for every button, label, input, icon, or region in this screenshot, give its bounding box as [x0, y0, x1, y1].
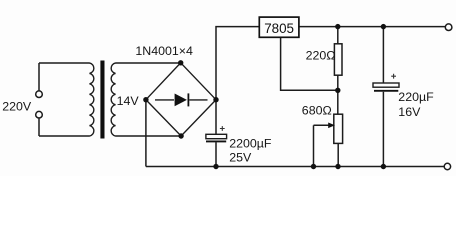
svg-text:680Ω: 680Ω [302, 104, 332, 118]
svg-text:1N4001×4: 1N4001×4 [135, 44, 193, 58]
svg-text:25V: 25V [229, 151, 252, 165]
svg-text:16V: 16V [398, 105, 421, 119]
svg-text:14V: 14V [117, 94, 140, 108]
svg-text:220Ω: 220Ω [306, 49, 336, 63]
svg-text:7805: 7805 [264, 21, 294, 36]
svg-text:2200µF: 2200µF [229, 137, 272, 151]
svg-text:220V: 220V [2, 99, 32, 113]
svg-text:220µF: 220µF [398, 90, 434, 104]
